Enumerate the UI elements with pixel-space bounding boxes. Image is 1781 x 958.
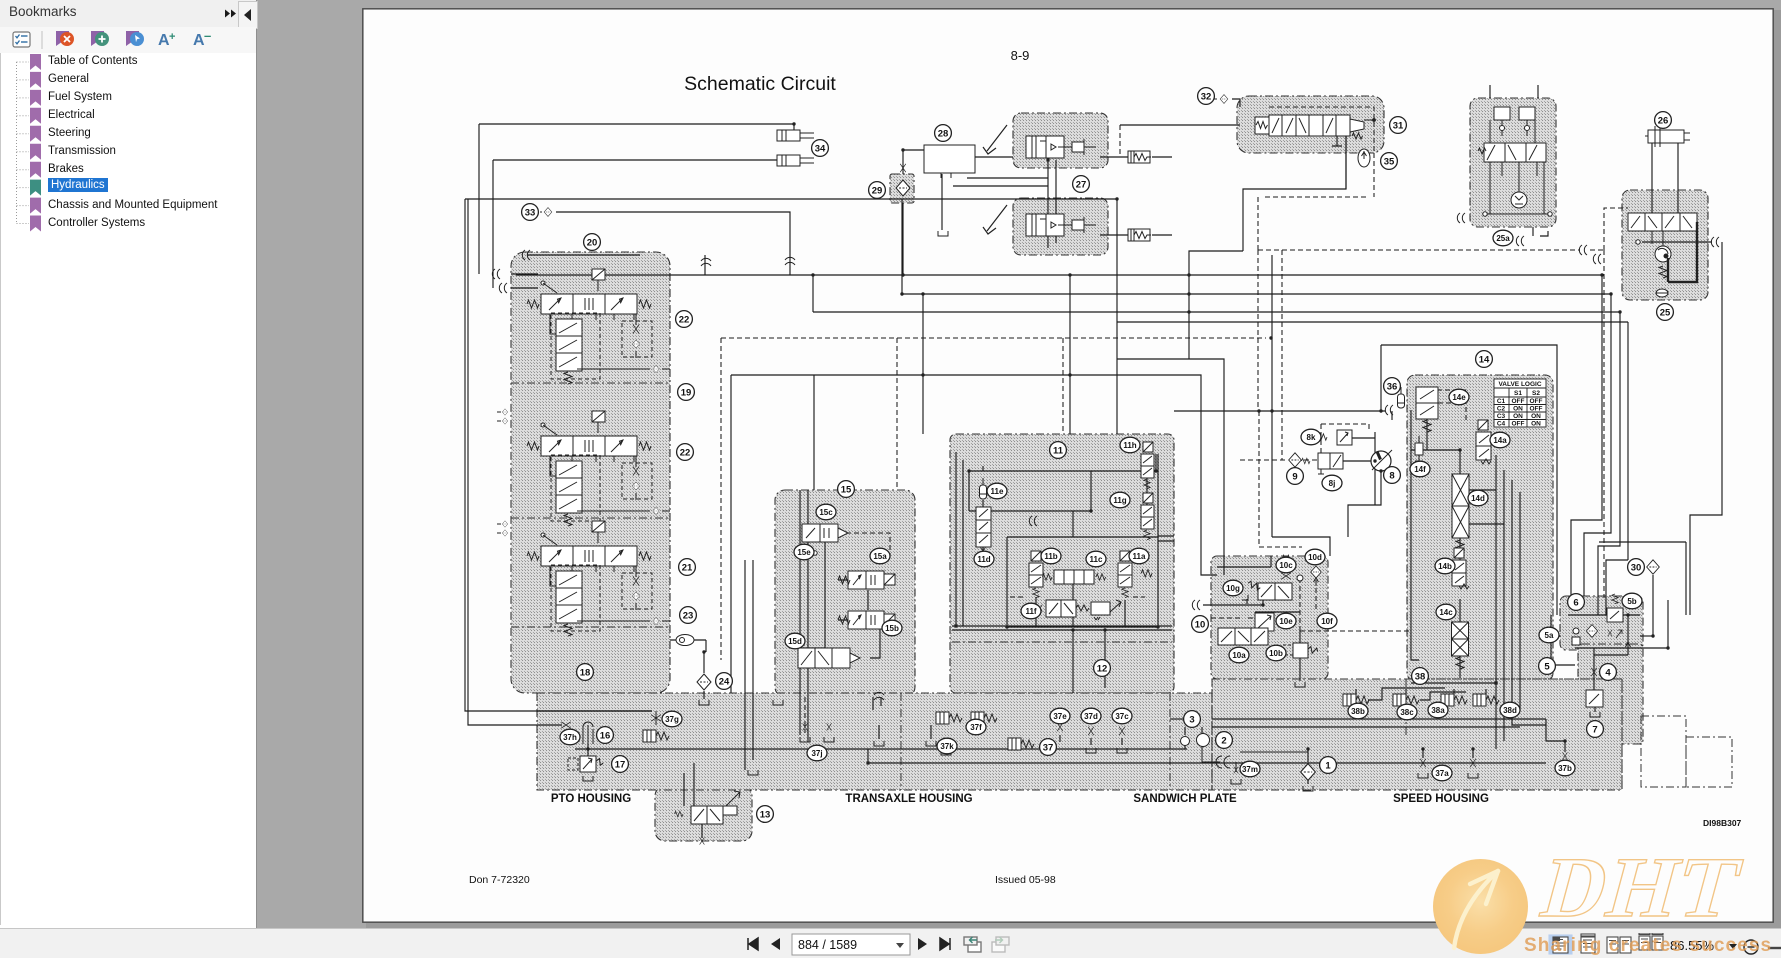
svg-text:11c: 11c bbox=[1090, 555, 1103, 564]
wire bus y199 bbox=[465, 198, 1117, 200]
balloon 37j bbox=[807, 745, 827, 761]
svg-text:33: 33 bbox=[525, 208, 536, 219]
svg-text:TRANSAXLE HOUSING: TRANSAXLE HOUSING bbox=[845, 793, 972, 805]
svg-text:37c: 37c bbox=[1115, 712, 1129, 721]
steering valve block 31 bbox=[1237, 96, 1384, 153]
svg-text:14b: 14b bbox=[1438, 562, 1452, 571]
svg-text:5b: 5b bbox=[1627, 597, 1636, 606]
wire pump to b14 bbox=[1391, 411, 1393, 420]
balloon 11f bbox=[1021, 603, 1041, 619]
balloon 23 bbox=[680, 607, 697, 624]
svg-text:28: 28 bbox=[938, 129, 949, 140]
balloon 35 bbox=[1381, 153, 1398, 170]
dashed 15c pilot bbox=[838, 533, 890, 556]
dashed pilot bus y338 bbox=[721, 337, 1266, 339]
balloon 38c bbox=[1397, 704, 1417, 720]
balloon 34 bbox=[812, 140, 829, 157]
balloon 10e bbox=[1276, 613, 1296, 629]
wire bus y312 main bbox=[813, 311, 1620, 313]
document page bbox=[362, 8, 1774, 923]
wire 37 xvalves stems bbox=[1060, 735, 1122, 745]
balloon 33 bbox=[522, 204, 539, 221]
wire band long y711 bbox=[537, 710, 652, 712]
master cylinder block 27a bbox=[1013, 113, 1108, 168]
svg-text:37m: 37m bbox=[1242, 765, 1258, 774]
gerotor 25 bbox=[1655, 246, 1671, 262]
housing labels bbox=[551, 793, 1489, 805]
valve stack assembly block 20/18 bbox=[511, 252, 670, 693]
svg-text:31: 31 bbox=[1393, 121, 1404, 132]
svg-text:14e: 14e bbox=[1452, 393, 1466, 402]
dashed boxes bottom right bbox=[1641, 716, 1732, 787]
junction dots bbox=[811, 273, 814, 276]
bottom housings band (PTO/transaxle/sandwich/speed) bbox=[537, 693, 1212, 790]
relief 25 bbox=[1659, 266, 1667, 278]
wire dashed brake link bbox=[1120, 124, 1240, 126]
balloon 10d bbox=[1305, 549, 1325, 565]
wire pump suction bus y411 bbox=[1174, 410, 1385, 412]
wire block6 bus y648 bbox=[1575, 647, 1668, 649]
balloon 32 bbox=[1198, 88, 1215, 105]
balloon 38a bbox=[1428, 702, 1448, 718]
svg-text:34: 34 bbox=[815, 144, 826, 155]
svg-text:8: 8 bbox=[1389, 471, 1394, 482]
wire block31 internal drop bbox=[1332, 136, 1342, 146]
balloon 1 bbox=[1320, 757, 1337, 774]
shock absorber 27b bbox=[1128, 229, 1151, 241]
wire bus y255 into block 20 bbox=[527, 254, 640, 256]
wire 11 manifold top bbox=[969, 471, 1156, 511]
valve 10g bbox=[1242, 580, 1292, 600]
balloon 10b bbox=[1266, 645, 1286, 661]
balloon 15b bbox=[882, 620, 902, 636]
wire left margin drop B bbox=[468, 199, 562, 725]
unloader valve 8j bbox=[1302, 453, 1343, 474]
block 6 bbox=[1560, 596, 1643, 650]
filter 6 bbox=[1586, 625, 1597, 638]
svg-text:37e: 37e bbox=[1053, 712, 1067, 721]
svg-text:18: 18 bbox=[580, 668, 591, 679]
svg-text:17: 17 bbox=[615, 760, 626, 771]
valve 15c bbox=[802, 524, 848, 542]
control valve group 3 in block 20 bbox=[527, 521, 670, 636]
svg-text:10d: 10d bbox=[1308, 553, 1322, 562]
wire block14 output bends bbox=[1496, 681, 1546, 749]
balloon 10c bbox=[1276, 557, 1296, 573]
svg-text:22: 22 bbox=[680, 448, 691, 459]
svg-text:14f: 14f bbox=[1414, 465, 1426, 474]
steering column valve 25 bbox=[1628, 213, 1697, 231]
brake cylinder 34a bbox=[777, 130, 814, 141]
svg-text:VALVE LOGIC: VALVE LOGIC bbox=[1498, 381, 1541, 388]
svg-text:14c: 14c bbox=[1439, 608, 1453, 617]
svg-text:ON: ON bbox=[1513, 406, 1523, 413]
balloon 5 bbox=[1539, 658, 1556, 675]
svg-text:12: 12 bbox=[1097, 664, 1108, 675]
wire 37a stems bbox=[1423, 749, 1473, 758]
accumulator 11e bbox=[980, 478, 987, 499]
balloon 37 bbox=[1040, 739, 1057, 756]
wire 24 filter stem bbox=[703, 652, 705, 699]
wire nest L1 bbox=[1571, 275, 1602, 596]
wire block15 to band bbox=[800, 560, 808, 742]
filter 1 bbox=[1301, 764, 1316, 781]
wire b20 top entries bbox=[511, 274, 538, 288]
items 37m bbox=[1202, 749, 1236, 772]
throttles 37a bbox=[1420, 759, 1426, 767]
svg-text:ON: ON bbox=[1531, 413, 1541, 420]
balloon 11b bbox=[1041, 548, 1061, 564]
reservoir box 28 bbox=[924, 145, 975, 173]
balloon 29 bbox=[869, 182, 886, 199]
svg-text:30: 30 bbox=[1631, 563, 1642, 574]
balloon 31 bbox=[1390, 117, 1407, 134]
wire 31 feed riser bbox=[1243, 136, 1346, 251]
balloon 37f bbox=[966, 719, 986, 735]
wire damper stems bbox=[1356, 688, 1486, 700]
throttle 37g bbox=[651, 715, 661, 721]
wire speed bus y763 bbox=[868, 749, 1546, 763]
balloon 14e bbox=[1449, 389, 1469, 405]
balloon 37d bbox=[1081, 708, 1101, 724]
svg-text:15c: 15c bbox=[819, 508, 833, 517]
svg-text:38b: 38b bbox=[1351, 707, 1365, 716]
balloon 38 bbox=[1412, 668, 1429, 685]
filter 30 bbox=[1647, 560, 1660, 574]
wire b18 check link bbox=[670, 640, 706, 652]
svg-text:38d: 38d bbox=[1503, 706, 1517, 715]
balloon 38d bbox=[1500, 702, 1520, 718]
svg-text:7: 7 bbox=[1592, 725, 1597, 736]
dashed 11 pilots bbox=[1007, 596, 1145, 598]
balloon 8 bbox=[1384, 467, 1401, 484]
solenoid valve 11b bbox=[1029, 551, 1043, 598]
filter 10d bbox=[1311, 566, 1322, 578]
balloon 12 bbox=[1094, 660, 1111, 677]
brake cylinder 34b bbox=[777, 155, 814, 166]
throttle 37b bbox=[1563, 752, 1568, 759]
svg-text:26: 26 bbox=[1658, 116, 1669, 127]
svg-text:10: 10 bbox=[1195, 620, 1206, 631]
dampers 37f bbox=[936, 712, 962, 724]
svg-text:37j: 37j bbox=[811, 749, 822, 758]
wire block10 out y612 bbox=[1255, 611, 1300, 613]
master cylinder 27a bbox=[1026, 136, 1096, 158]
balloon 9 bbox=[1287, 468, 1304, 485]
svg-text:14a: 14a bbox=[1493, 436, 1507, 445]
wire 1 filter stem bbox=[1307, 749, 1309, 784]
wire 27a output bbox=[1100, 156, 1172, 158]
balloon 11e bbox=[987, 483, 1007, 499]
balloon 4 bbox=[1600, 664, 1617, 681]
control valve group 2 in block 20 bbox=[527, 411, 670, 526]
wire nest L4 bbox=[1689, 542, 1691, 615]
clutch valve block 14 bbox=[1407, 375, 1553, 681]
housing band separators bbox=[901, 679, 1406, 790]
wire 16 drop bbox=[587, 744, 589, 749]
dashed drop x1604 bbox=[1603, 250, 1605, 598]
wire drop x1117 to block 11 bbox=[1116, 199, 1118, 434]
valve 14c bbox=[1452, 622, 1469, 656]
wire speed bus y749 bbox=[575, 748, 1187, 750]
svg-text:20: 20 bbox=[587, 238, 598, 249]
wire 11 right ports bbox=[1158, 536, 1174, 541]
svg-text:C4: C4 bbox=[1497, 421, 1506, 428]
wire 27a feed bbox=[975, 156, 1013, 158]
filter 29 bbox=[896, 180, 910, 196]
wire speed bus right y719 bbox=[1212, 719, 1546, 727]
svg-text:11h: 11h bbox=[1123, 441, 1136, 450]
pressure switch 35 bbox=[1358, 149, 1370, 167]
wire jog x902 bbox=[901, 199, 903, 294]
balloon 5a bbox=[1539, 627, 1559, 643]
svg-text:Issued 05-98: Issued 05-98 bbox=[995, 874, 1056, 886]
svg-text:C2: C2 bbox=[1497, 406, 1506, 413]
wire cylinder supply upper bbox=[479, 124, 794, 274]
svg-text:OFF: OFF bbox=[1530, 406, 1543, 413]
svg-text:37: 37 bbox=[1043, 743, 1054, 754]
svg-text:+: + bbox=[169, 31, 175, 43]
wire valve4 branch bbox=[1594, 615, 1628, 700]
block 6 lower bbox=[1578, 644, 1643, 744]
balloon 11h bbox=[1120, 437, 1140, 453]
wire block14 left bus bbox=[1411, 410, 1504, 678]
svg-text:27: 27 bbox=[1076, 180, 1087, 191]
main valve 11c bbox=[1042, 570, 1105, 584]
solenoid valve 14b bbox=[1452, 548, 1469, 589]
wire 3 link bbox=[1170, 718, 1184, 720]
svg-text:16: 16 bbox=[600, 731, 611, 742]
wire transaxle down pair bbox=[873, 697, 881, 710]
pto clutch valve block 13 bbox=[655, 786, 752, 841]
svg-text:8k: 8k bbox=[1307, 433, 1316, 442]
balloon 37g bbox=[662, 711, 682, 727]
balloon 14 bbox=[1476, 351, 1493, 368]
wire block6 bus y636 bbox=[1640, 635, 1653, 637]
svg-text:Schematic Circuit: Schematic Circuit bbox=[684, 73, 836, 95]
svg-text:11g: 11g bbox=[1113, 496, 1126, 505]
svg-text:S1: S1 bbox=[1514, 390, 1522, 397]
wire 11h 11g column bbox=[1147, 454, 1158, 537]
valve 14d bbox=[1452, 474, 1469, 538]
suction filter 9 bbox=[1289, 453, 1302, 467]
wire block31 exit bbox=[1345, 136, 1347, 189]
hose break symbols bbox=[502, 409, 508, 415]
dashed 9 line y460 bbox=[1240, 459, 1321, 461]
wire band tanks A bbox=[879, 725, 931, 739]
dashed 10 entry bbox=[1211, 617, 1255, 619]
wire 27b output bbox=[1100, 234, 1172, 236]
check valve 23 bbox=[676, 635, 694, 646]
svg-text:37b: 37b bbox=[1558, 764, 1572, 773]
wire cylinder supply lower bbox=[493, 160, 777, 288]
balloon 37e bbox=[1050, 708, 1070, 724]
svg-text:DI98B307: DI98B307 bbox=[1703, 818, 1742, 828]
wire 10b drop bbox=[1299, 631, 1301, 681]
wire 32 into block31 bbox=[1232, 99, 1240, 107]
wire block14 outputs bbox=[1496, 455, 1520, 681]
balloon 11c bbox=[1086, 551, 1106, 567]
dashed 8 box bbox=[1321, 424, 1369, 455]
svg-text:37d: 37d bbox=[1084, 712, 1098, 721]
tank bracket under 28 bbox=[938, 231, 948, 236]
svg-text:3: 3 bbox=[1189, 715, 1194, 726]
block 11/12 separator bbox=[952, 641, 1172, 643]
valve 11g bbox=[1141, 493, 1154, 540]
svg-text:OFF: OFF bbox=[1512, 398, 1525, 405]
wire pump riser bbox=[1381, 345, 1557, 615]
wire 17 feed bbox=[587, 749, 589, 756]
relief 17 bbox=[568, 756, 604, 781]
gauge ports 2 bbox=[1181, 737, 1190, 746]
wire jog x705 bbox=[704, 255, 706, 275]
brake units 25a bbox=[1494, 107, 1510, 120]
balloon 14b bbox=[1435, 558, 1455, 574]
svg-text:38c: 38c bbox=[1400, 708, 1414, 717]
svg-text:ON: ON bbox=[1531, 421, 1541, 428]
balloon 24 bbox=[716, 673, 733, 690]
dashed riser block25 bbox=[1604, 208, 1628, 250]
valve row 25a bbox=[1484, 143, 1546, 162]
balloon 15 bbox=[838, 481, 855, 498]
svg-text:15e: 15e bbox=[797, 548, 811, 557]
svg-text:11b: 11b bbox=[1044, 552, 1057, 561]
filter 24 bbox=[697, 674, 711, 690]
watermark slogan bbox=[1524, 935, 1781, 957]
wire x1272 drop bbox=[1272, 255, 1330, 556]
wire b20 right drops bbox=[745, 560, 753, 770]
balloon 27 bbox=[1073, 176, 1090, 193]
balloon 28 bbox=[935, 125, 952, 142]
svg-text:9: 9 bbox=[1292, 472, 1297, 483]
throttle 37k bbox=[944, 737, 949, 744]
svg-text:10g: 10g bbox=[1226, 584, 1240, 593]
balloon 20 bbox=[584, 234, 601, 251]
valve 11h bbox=[1141, 442, 1154, 489]
relief 7 bbox=[1282, 555, 1603, 717]
wire step to y251 bbox=[731, 251, 1243, 693]
svg-text:Don 7-72320: Don 7-72320 bbox=[469, 874, 530, 886]
wire block25a drain bbox=[1533, 227, 1548, 236]
svg-text:OFF: OFF bbox=[1512, 421, 1525, 428]
valve 10e bbox=[1255, 613, 1274, 631]
wire speed feed y683 bbox=[1411, 682, 1497, 684]
svg-text:86.55%: 86.55% bbox=[1670, 938, 1715, 953]
wire drop x923 to block 11 bbox=[922, 294, 924, 434]
balloon 15a bbox=[870, 548, 890, 564]
valve 14e bbox=[1416, 387, 1438, 432]
balloon 10a bbox=[1229, 647, 1249, 663]
svg-text:884 / 1589: 884 / 1589 bbox=[798, 938, 857, 952]
svg-text:10b: 10b bbox=[1269, 649, 1283, 658]
wire block6 left ports bbox=[1541, 615, 1575, 665]
watermark DHT bbox=[1537, 843, 1781, 933]
watermark circle arrow bbox=[1433, 859, 1528, 954]
svg-text:22: 22 bbox=[679, 315, 690, 326]
orifice 14f bbox=[1415, 443, 1423, 455]
balloon 10f bbox=[1317, 613, 1337, 629]
speed housing top boundary step bbox=[1212, 679, 1622, 790]
balloon 14d bbox=[1468, 490, 1488, 506]
svg-text:A: A bbox=[193, 32, 205, 49]
wire 8k link bbox=[1351, 437, 1375, 439]
svg-text:A: A bbox=[158, 32, 170, 49]
wire block25 exit y242 bbox=[1642, 241, 1712, 243]
svg-text:10f: 10f bbox=[1321, 617, 1333, 626]
svg-text:32: 32 bbox=[1201, 92, 1212, 103]
wire nest L3 bbox=[1598, 312, 1620, 615]
balloon 10 bbox=[1192, 616, 1209, 633]
wire left margin drop A bbox=[465, 199, 652, 711]
pedal 27a bbox=[983, 125, 1007, 154]
valve 15b bbox=[838, 611, 895, 629]
valve 11f bbox=[1038, 600, 1121, 620]
svg-text:8-9: 8-9 bbox=[1011, 48, 1030, 63]
balloon 14f bbox=[1410, 461, 1430, 477]
wire filter29 down bbox=[902, 203, 904, 275]
svg-text:10e: 10e bbox=[1279, 617, 1293, 626]
balloon 11 bbox=[1050, 442, 1067, 459]
svg-text:35: 35 bbox=[1384, 157, 1395, 168]
wire 15d link bbox=[798, 628, 880, 658]
wire 37b stem bbox=[1546, 719, 1565, 752]
svg-text:C1: C1 bbox=[1497, 398, 1506, 405]
check valve 32 bbox=[1220, 95, 1228, 104]
dashed drop x721 bbox=[720, 338, 722, 660]
wire 15 valve links bbox=[838, 580, 868, 620]
master cylinder block 27b bbox=[1013, 198, 1108, 255]
wire 11h riser bbox=[1155, 454, 1157, 471]
variable pump 8 bbox=[1371, 450, 1392, 471]
page shadow bbox=[1774, 10, 1781, 928]
balloon 3 bbox=[1184, 711, 1201, 728]
balloon 15c bbox=[816, 504, 836, 520]
pump motor 25a bbox=[1511, 192, 1527, 208]
dashed 10 verticals bbox=[1300, 578, 1316, 631]
wire 10g tank bbox=[1246, 599, 1248, 604]
control valve group 1 in block 20 bbox=[527, 269, 670, 384]
svg-text:6: 6 bbox=[1573, 598, 1578, 609]
wire drop x1070 to block 11 bbox=[1069, 275, 1071, 434]
balloon 14c bbox=[1436, 604, 1456, 620]
heavy links 25 bbox=[1668, 222, 1697, 282]
svg-text:–: – bbox=[204, 30, 211, 43]
svg-text:36: 36 bbox=[1387, 382, 1398, 393]
svg-text:24: 24 bbox=[719, 677, 730, 688]
orifice damper bbox=[643, 730, 669, 742]
valve 11d bbox=[976, 507, 991, 555]
dashed drop x1258 upper bbox=[1257, 197, 1259, 411]
svg-text:PTO HOUSING: PTO HOUSING bbox=[551, 793, 631, 805]
accumulator 36 bbox=[1398, 387, 1405, 408]
dashed pilot y197 block31 bbox=[1262, 153, 1374, 197]
svg-text:C3: C3 bbox=[1497, 413, 1506, 420]
balloon 25 bbox=[1657, 304, 1674, 321]
valve 31 dashed frame bbox=[1269, 107, 1374, 152]
wire 11 bottom bus bbox=[952, 626, 1172, 630]
svg-text:15a: 15a bbox=[873, 552, 887, 561]
balloon 16 bbox=[597, 727, 614, 744]
relief 5b bbox=[1607, 594, 1623, 622]
dashed drop x1063 bbox=[1062, 338, 1064, 434]
steering unit block 25 bbox=[1622, 190, 1708, 300]
balloon 13 bbox=[757, 806, 774, 823]
transaxle valve block 11/12 bbox=[950, 434, 1174, 693]
svg-text:37g: 37g bbox=[665, 715, 679, 724]
svg-text:SANDWICH PLATE: SANDWICH PLATE bbox=[1133, 793, 1237, 805]
wire 15 dashed drop bbox=[824, 542, 826, 648]
svg-text:37h: 37h bbox=[563, 733, 577, 742]
